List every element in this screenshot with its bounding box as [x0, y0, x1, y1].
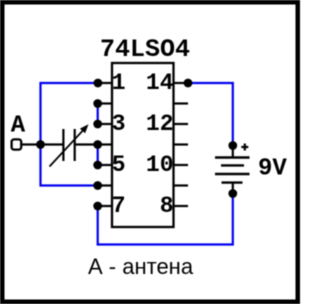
battery plus lead	[232, 146, 234, 158]
battery plate 2 short	[221, 164, 244, 166]
variable capacitor C1 plate 2	[74, 129, 76, 161]
pin 10 stub	[174, 164, 188, 166]
wire left loop: pin 1 to junction to pin 6	[41, 83, 99, 186]
svg-text:9V: 9V	[258, 155, 287, 182]
terminal A	[12, 139, 22, 149]
pin 9 stub	[174, 184, 188, 186]
pin 1 stub	[98, 82, 112, 84]
svg-text:14: 14	[146, 70, 174, 96]
variable capacitor C1 arrow	[50, 124, 89, 166]
battery minus lead	[232, 183, 234, 194]
wire pin 4 to pin 5	[97, 145, 99, 166]
battery plate 1 long	[215, 156, 250, 158]
junction dot pin 1	[94, 79, 103, 88]
pin 14 stub	[174, 82, 188, 84]
battery plate 3 long	[215, 173, 250, 175]
svg-text:8: 8	[160, 193, 174, 219]
wire pin 2 to pin 3	[97, 104, 99, 125]
svg-text:A: A	[11, 113, 26, 140]
svg-text:3: 3	[112, 111, 126, 137]
svg-text:74LSO4: 74LSO4	[100, 35, 190, 64]
pin 2 stub	[98, 102, 112, 104]
battery minus dot	[228, 189, 237, 198]
junction dot pin 2	[93, 99, 102, 108]
pin 8 stub	[174, 205, 188, 207]
pin 3 stub	[98, 123, 112, 125]
svg-text:5: 5	[112, 152, 126, 178]
pin 4 stub	[98, 143, 112, 145]
svg-text:12: 12	[146, 111, 174, 137]
battery BT1 plus dot	[228, 141, 237, 150]
variable capacitor C1 plate 1	[62, 129, 64, 161]
junction dot pin 4	[93, 140, 102, 149]
pin 7 stub	[98, 205, 112, 207]
IC U1 74LS04 body	[112, 63, 174, 227]
svg-text:10: 10	[146, 152, 174, 178]
pin 13 stub	[174, 102, 188, 104]
junction dot pin 5	[93, 161, 102, 170]
svg-text:1: 1	[112, 70, 126, 96]
pin 12 stub	[174, 123, 188, 125]
pin 6 stub	[98, 184, 112, 186]
junction dot pin 7	[93, 202, 102, 211]
pin 11 stub	[174, 143, 188, 145]
junction dot pin 6	[93, 181, 102, 190]
wire pin 7 to battery minus	[98, 194, 233, 245]
svg-text:7: 7	[112, 193, 126, 219]
wire pin 14 to battery plus	[188, 83, 233, 146]
wire terminal A to capacitor	[22, 143, 63, 145]
junction dot pin 14	[184, 79, 193, 88]
pin 5 stub	[98, 164, 112, 166]
junction dot node A	[36, 140, 45, 149]
battery plate 4 short	[222, 181, 243, 183]
svg-text:А - антена: А - антена	[88, 254, 194, 279]
battery plus sign	[241, 144, 248, 151]
junction dot pin 3	[93, 120, 102, 129]
wire capacitor to pin 4	[76, 143, 98, 145]
